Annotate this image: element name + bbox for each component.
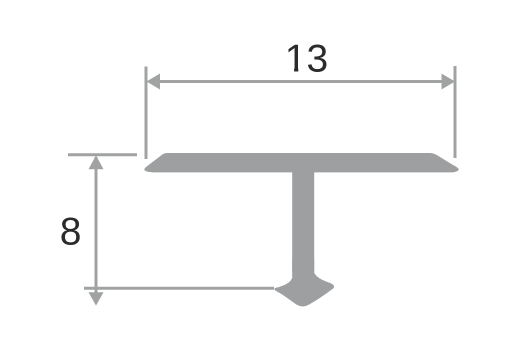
- svg-text:13: 13: [285, 38, 328, 81]
- svg-text:8: 8: [60, 211, 82, 254]
